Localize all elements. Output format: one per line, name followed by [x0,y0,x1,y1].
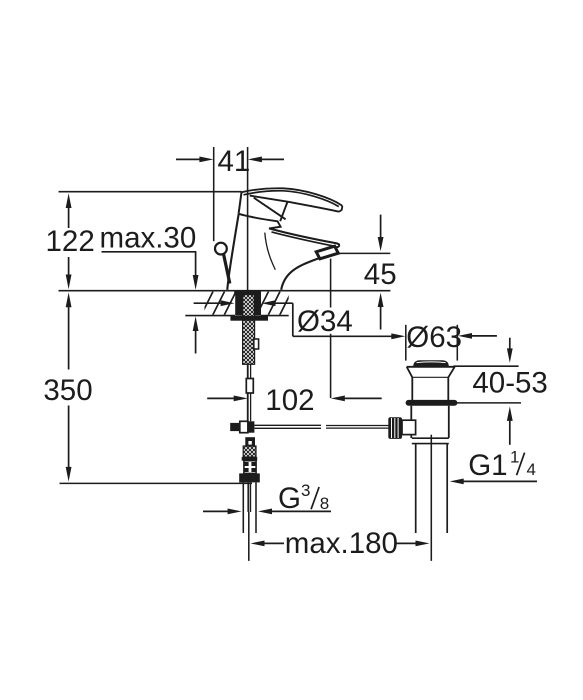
svg-text:1: 1 [510,448,519,467]
label G1 1/4 with arrow [450,448,537,485]
svg-text:Ø63: Ø63 [406,321,462,354]
supply tail pipe G3/8 [243,482,256,533]
dimension arrows for 34mm hole [194,300,293,306]
dimension max.180 [249,512,430,561]
drain tail pipe G1 1/4 [416,435,448,561]
svg-text:G: G [278,482,301,515]
svg-text:122: 122 [46,225,95,258]
svg-text:G1: G1 [468,449,507,482]
dimension 102 [207,384,382,417]
svg-text:41: 41 [218,145,251,178]
bottom reference line (hose end level) [60,482,253,484]
pop-up rod vertical link [246,364,253,421]
dimension 41 [176,145,284,178]
supply hose below faucet [239,437,260,482]
label max.30 with leader [100,222,199,354]
svg-text:max.30: max.30 [100,222,197,255]
svg-text:40-53: 40-53 [472,367,547,400]
pop-up rod tee connector [230,421,254,432]
drain lower body [411,406,449,444]
counter hatching [201,292,292,316]
label Ø34 with leader [293,303,392,338]
dimension 41 extension line left [213,147,215,241]
drain upper body [407,367,455,401]
drain rod knob (knurled) [388,417,415,439]
label G 3/8 with arrows [203,481,331,515]
countertop line [59,290,391,292]
faucet body [227,192,339,290]
svg-text:45: 45 [364,258,397,291]
counter bottom line [185,315,288,317]
threaded shank through counter [230,290,268,364]
svg-text:3: 3 [301,481,310,500]
horizontal pop-up rod [254,425,388,428]
svg-text:Ø34: Ø34 [297,305,353,338]
faucet centerline [247,147,249,421]
drain pop-up cap [413,360,449,366]
svg-text:102: 102 [265,384,314,417]
pop-up knob and rod [215,243,230,284]
dimension 40-53 [453,338,547,445]
svg-text:max.180: max.180 [285,527,398,560]
dimension 45 [328,215,397,330]
svg-text:8: 8 [320,494,329,513]
top reference line (spout top level) [59,191,242,193]
aerator outlet [316,246,338,259]
spout outlet centerline [330,259,332,398]
faucet lever handle [242,188,343,221]
drain flange (seal ring) [406,400,458,406]
dimension Ø63 [391,321,497,360]
svg-text:4: 4 [527,460,536,479]
dimension 350 [43,292,92,481]
dimension 122 [46,193,95,289]
svg-text:350: 350 [43,374,92,407]
